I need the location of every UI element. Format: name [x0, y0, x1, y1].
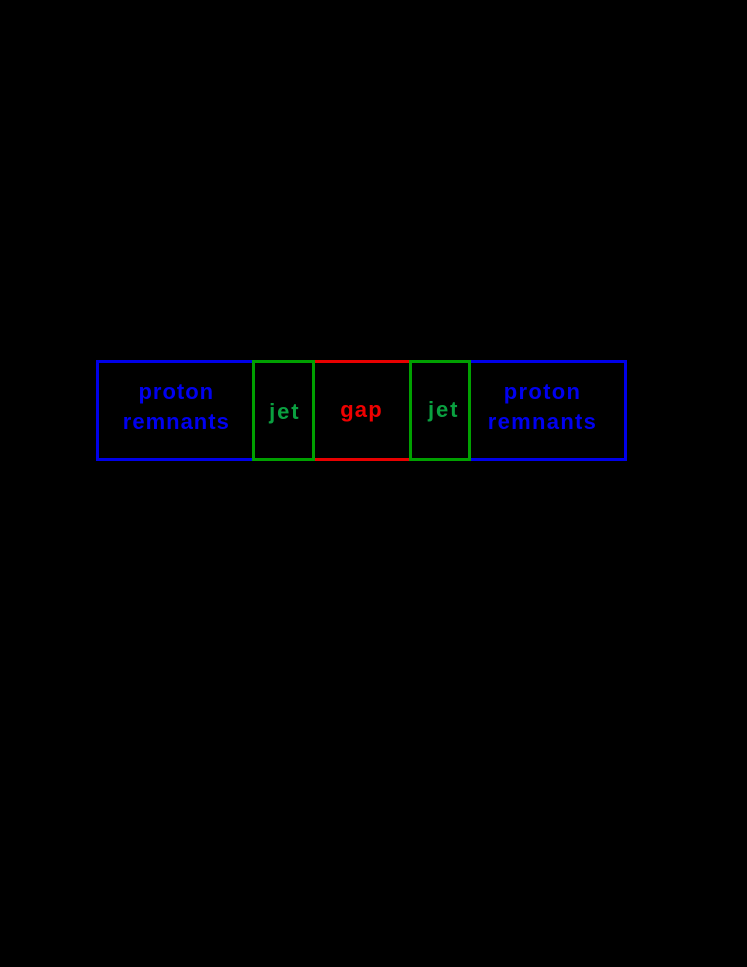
label: gap: [314, 398, 410, 422]
jet box left (green): [252, 360, 315, 461]
label: proton remnants (left): [98, 377, 255, 437]
jet box right (green): [409, 360, 471, 461]
outer rapidity box (blue): [96, 360, 627, 461]
label: jet (left): [253, 400, 316, 424]
label: proton remnants (right): [464, 377, 621, 437]
gap region (red): [313, 360, 409, 461]
label: jet (right): [413, 398, 475, 422]
